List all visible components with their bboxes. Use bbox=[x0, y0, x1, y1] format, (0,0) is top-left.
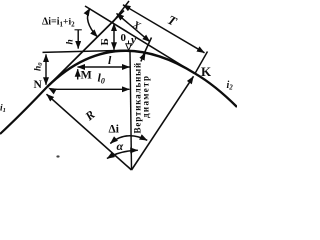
svg-text:M: M bbox=[81, 68, 92, 82]
svg-text:Δi: Δi bbox=[109, 124, 120, 136]
svg-text:T: T bbox=[165, 12, 180, 29]
svg-text:N: N bbox=[34, 79, 43, 91]
svg-text:y: y bbox=[129, 35, 137, 47]
svg-text:K: K bbox=[201, 64, 212, 79]
svg-text:i2: i2 bbox=[227, 80, 234, 92]
svg-text:Δi=i1+i2: Δi=i1+i2 bbox=[42, 17, 75, 29]
svg-text:l: l bbox=[108, 53, 112, 67]
svg-text:α: α bbox=[117, 139, 124, 153]
svg-text:R: R bbox=[82, 107, 98, 124]
svg-text:диаметр: диаметр bbox=[141, 75, 151, 118]
svg-text:l0: l0 bbox=[98, 71, 105, 86]
svg-text:Б: Б bbox=[99, 38, 111, 45]
svg-text:h: h bbox=[66, 39, 76, 44]
svg-text:i1: i1 bbox=[0, 104, 6, 115]
svg-text:h0: h0 bbox=[34, 62, 45, 71]
svg-text:0: 0 bbox=[121, 32, 127, 44]
svg-text:X: X bbox=[130, 19, 143, 33]
